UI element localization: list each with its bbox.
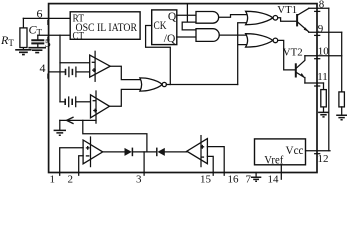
error amp EA1 [83,140,103,164]
pin tick 11 [315,85,320,87]
wire battery B2 to comparator C2 minus input [76,101,90,103]
pin tick 4 [47,74,49,78]
svg-text:16: 16 [228,174,240,184]
resistor R2 (pin 9/10 load) [339,92,345,107]
wire CT sawtooth bus [59,35,61,102]
wire sawtooth to comparator C1 minus input [60,62,90,64]
diode D2 [156,148,158,157]
svg-text:4: 4 [40,61,46,75]
svg-text:15: 15 [200,174,212,184]
svg-text:11: 11 [317,71,328,83]
wire pin 14 from Vref box [280,165,282,179]
comparator C2 (PWM) [91,95,110,118]
wire VT1 emitter to pin 9 [309,31,342,33]
svg-text:VT1: VT1 [277,4,297,16]
svg-text:Vcc: Vcc [286,145,304,157]
wire pin4 to battery B1 [49,71,65,73]
wire pin 2 to EA1 minus [79,156,83,176]
transistor VT2 [295,63,297,77]
error amp EA2 [187,139,208,164]
svg-text:8: 8 [319,0,325,10]
wire feedback node to pin 3 [143,152,145,175]
svg-text:14: 14 [268,174,280,184]
wire NOR2 to VT2 base [278,40,295,70]
svg-text:/Q: /Q [164,33,176,45]
NOR gate G5 [246,34,273,47]
svg-text:Vref: Vref [264,155,283,167]
pin 7 ground [255,173,257,178]
AND gate G2 [196,29,219,42]
svg-text:1: 1 [50,174,56,184]
wire D1 to feedback node [132,151,156,153]
reference regulator box U-REF [255,139,306,165]
flip-flop box U-FF [152,10,177,45]
wire VT2 collector to pin 10 [305,55,342,57]
IC outer border [49,4,317,173]
diode D1 [125,148,132,156]
wire pin 15 to EA2 minus [207,156,213,175]
wire C1 output to OR gate [110,66,140,79]
wire AND2 output to NOR2 [219,34,249,37]
wire Vcc box to pin 12 [306,150,331,152]
wire pin 9/10 external down to resistor R2 [341,32,343,92]
wire pin 1 to EA1 plus [60,148,83,175]
wire D2 to EA2 output [165,151,187,153]
pin tick 5 [47,37,49,41]
oscillator box U-OSC [70,12,140,40]
svg-text:7: 7 [246,174,252,184]
svg-text:CK: CK [154,20,168,32]
svg-text:VT2: VT2 [283,47,303,59]
wire OR output node to NOR column [166,84,237,86]
wire pin6 to RT [23,17,70,19]
wire VT1 collector to pin 8 [309,7,329,9]
svg-text:OSC IL IATOR: OSC IL IATOR [76,22,138,34]
wire OR node up to NOR1 and NOR2 lower inputs [238,23,250,85]
battery B2 (PWM offset) [60,101,65,103]
pin tick 10 [315,58,320,60]
wire Q to AND1 [177,14,196,16]
current sink arrow [67,117,74,124]
wire arrow line to ground [59,120,61,130]
wire pin5 to CT [38,34,70,36]
AND gate G1 [196,12,219,24]
pin tick 6 [47,20,49,24]
ground under CT [28,48,46,53]
wire CK input from OR node [146,26,171,85]
wire output-control from top border [182,4,196,30]
wire pin 16 to EA2 plus [207,147,224,176]
wire /Q to AND2 [177,36,196,38]
wire C2 output to OR gate [110,89,141,106]
svg-text:Q: Q [168,11,177,23]
resistor R1 (pin 11 load) [323,83,325,112]
wire AND1 output to NOR1 [219,15,250,18]
capacitor CT [37,35,39,47]
comparator C1 (dead-time) [90,55,111,77]
ground under current sink [54,130,66,135]
svg-text:12: 12 [318,153,329,165]
pin tick 9 [315,34,320,36]
wire NOR1 to VT1 base [278,18,297,22]
wire current-sink arrow line to comparator C2 [60,119,96,121]
pin tick 8 [315,10,320,12]
OR gate G3 with bubble [140,78,162,91]
transistor VT1 [296,14,298,26]
wire battery B1 to comparator C1 plus input [77,71,90,73]
resistor RT [22,18,24,49]
ground under R1 [318,112,329,117]
svg-text:2: 2 [68,174,74,184]
wire feedback node up to PWM comparator [83,120,147,151]
svg-text:CT: CT [73,31,85,42]
ground under RT [15,50,31,55]
wire pin 8 external down to Vcc rail [328,8,330,150]
svg-text:9: 9 [318,23,324,35]
wire EA1 output to diode D1 [103,151,125,153]
NOR gate G4 [246,11,273,24]
battery B1 (DTC offset) [66,69,73,75]
pin tick 12 [315,153,320,155]
svg-text:3: 3 [136,174,142,184]
wire VT2 emitter to pin 11 [305,82,324,84]
svg-text:10: 10 [318,46,330,58]
ground under R2 [336,115,347,120]
